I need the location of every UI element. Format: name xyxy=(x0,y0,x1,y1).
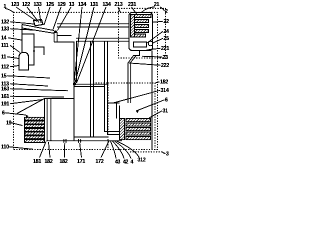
svg-text:171: 171 xyxy=(77,159,85,165)
svg-text:6: 6 xyxy=(2,111,5,117)
svg-text:15: 15 xyxy=(1,74,7,80)
svg-text:13: 13 xyxy=(69,2,75,8)
svg-text:122: 122 xyxy=(22,2,30,8)
svg-text:221: 221 xyxy=(161,46,169,52)
svg-text:6: 6 xyxy=(165,98,168,104)
svg-text:133: 133 xyxy=(1,27,9,33)
svg-text:213: 213 xyxy=(114,2,122,8)
svg-text:182: 182 xyxy=(59,159,67,165)
svg-text:133: 133 xyxy=(33,2,41,8)
svg-text:112: 112 xyxy=(1,65,9,71)
svg-text:42: 42 xyxy=(123,160,129,166)
svg-text:110: 110 xyxy=(1,145,9,151)
svg-text:222: 222 xyxy=(161,63,169,69)
svg-text:181: 181 xyxy=(33,159,41,165)
svg-text:314: 314 xyxy=(161,88,169,94)
svg-text:43: 43 xyxy=(115,160,121,166)
svg-text:163: 163 xyxy=(1,87,9,93)
svg-text:23: 23 xyxy=(163,55,169,61)
svg-text:123: 123 xyxy=(11,2,19,8)
svg-text:25: 25 xyxy=(164,36,170,42)
svg-text:31: 31 xyxy=(163,109,169,115)
svg-text:182: 182 xyxy=(44,159,52,165)
svg-text:161: 161 xyxy=(1,94,9,100)
svg-text:191: 191 xyxy=(1,102,9,108)
svg-text:132: 132 xyxy=(1,20,9,26)
svg-text:129: 129 xyxy=(57,2,65,8)
svg-text:11: 11 xyxy=(1,55,6,61)
svg-text:172: 172 xyxy=(95,159,103,165)
svg-text:3: 3 xyxy=(166,152,169,158)
svg-text:312: 312 xyxy=(137,158,145,164)
svg-text:134: 134 xyxy=(102,2,110,8)
svg-text:2: 2 xyxy=(165,9,168,15)
svg-text:14: 14 xyxy=(1,36,7,42)
svg-text:22: 22 xyxy=(164,19,170,25)
svg-text:111: 111 xyxy=(1,43,9,49)
svg-text:231: 231 xyxy=(128,2,136,8)
svg-text:4: 4 xyxy=(130,160,133,166)
svg-text:1: 1 xyxy=(4,4,7,10)
svg-text:19: 19 xyxy=(6,121,12,127)
svg-text:182: 182 xyxy=(160,80,168,86)
svg-text:24: 24 xyxy=(164,29,170,35)
